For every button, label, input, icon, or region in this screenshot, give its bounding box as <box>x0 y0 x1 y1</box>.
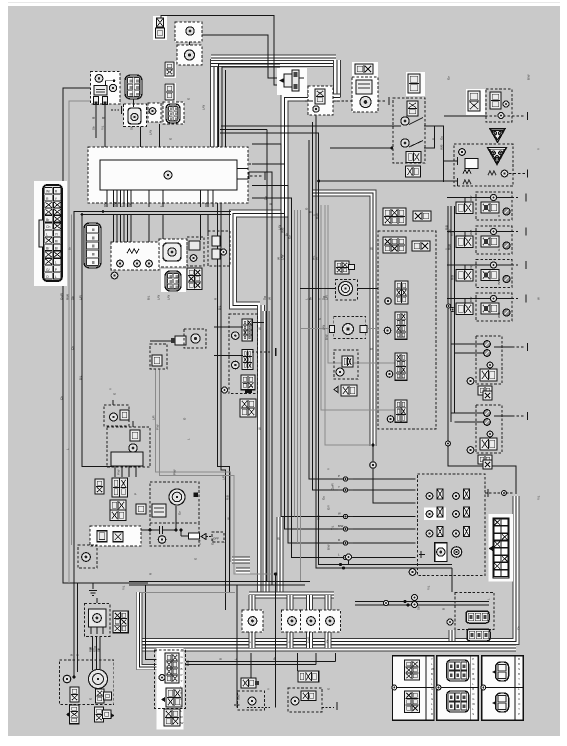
svg-text:W: W <box>258 327 262 330</box>
svg-text:Y/L: Y/L <box>451 231 455 236</box>
svg-text:Ch: Ch <box>71 346 75 350</box>
svg-text:R/W: R/W <box>448 244 452 250</box>
svg-text:L/W: L/W <box>202 105 206 110</box>
svg-text:Y: Y <box>267 688 271 690</box>
svg-text:B: B <box>431 672 433 676</box>
svg-text:R/B: R/B <box>317 515 321 520</box>
svg-text:P: P <box>338 474 340 478</box>
svg-text:G: G <box>431 687 433 691</box>
svg-text:R/B: R/B <box>451 275 455 280</box>
svg-text:B: B <box>181 667 183 671</box>
svg-text:W: W <box>472 702 475 706</box>
svg-text:Y: Y <box>327 468 331 470</box>
svg-text:R: R <box>518 692 520 696</box>
svg-text:B/W: B/W <box>497 279 501 285</box>
svg-text:B: B <box>472 672 474 676</box>
svg-text:W: W <box>537 297 541 300</box>
svg-text:P: P <box>181 673 183 677</box>
svg-text:W: W <box>258 427 262 430</box>
svg-text:Gy: Gy <box>178 511 182 515</box>
svg-text:W/B: W/B <box>440 144 444 150</box>
svg-text:Ch: Ch <box>46 225 50 229</box>
svg-text:Y: Y <box>97 648 101 650</box>
svg-text:W: W <box>338 512 341 516</box>
svg-text:B/L: B/L <box>147 295 151 300</box>
svg-text:R/B: R/B <box>445 225 449 230</box>
svg-text:B: B <box>269 203 273 205</box>
svg-text:Y/L: Y/L <box>122 585 126 590</box>
svg-text:R/B: R/B <box>204 202 208 207</box>
svg-text:Dg: Dg <box>263 296 267 300</box>
svg-text:P/W: P/W <box>117 469 121 475</box>
svg-text:Y: Y <box>518 707 520 711</box>
svg-text:Sb: Sb <box>326 639 330 643</box>
svg-text:B: B <box>442 608 446 610</box>
svg-text:Gy/R: Gy/R <box>307 637 311 643</box>
svg-text:Y: Y <box>537 148 541 150</box>
svg-text:Br: Br <box>309 297 313 300</box>
svg-text:W: W <box>315 257 319 260</box>
svg-text:Y/L: Y/L <box>101 125 105 130</box>
svg-text:L: L <box>46 232 48 236</box>
svg-text:L/W: L/W <box>167 295 171 300</box>
svg-text:R/W: R/W <box>103 201 107 207</box>
svg-text:W: W <box>431 667 434 671</box>
svg-text:W/B: W/B <box>497 312 501 318</box>
svg-text:B/W: B/W <box>338 524 344 528</box>
svg-text:G/: G/ <box>46 268 50 272</box>
svg-text:W: W <box>277 537 281 540</box>
svg-text:W: W <box>268 297 272 300</box>
svg-text:Sb: Sb <box>417 606 421 610</box>
svg-text:R: R <box>338 538 340 542</box>
svg-text:Gy: Gy <box>322 496 326 500</box>
svg-text:Br: Br <box>273 657 277 660</box>
svg-text:L/W: L/W <box>322 325 326 330</box>
svg-text:B: B <box>518 662 520 666</box>
svg-text:W: W <box>227 517 231 520</box>
svg-text:Sb: Sb <box>71 296 75 300</box>
svg-text:R/W: R/W <box>66 294 70 300</box>
svg-text:Gy/R: Gy/R <box>211 538 215 545</box>
svg-text:Y: Y <box>431 657 433 661</box>
svg-text:P: P <box>104 698 108 700</box>
svg-text:W/B: W/B <box>237 694 241 700</box>
svg-text:Sb: Sb <box>92 126 96 130</box>
svg-text:B: B <box>472 687 474 691</box>
svg-text:B/W: B/W <box>325 334 329 340</box>
svg-text:R: R <box>370 348 374 350</box>
svg-text:O: O <box>46 275 49 279</box>
svg-text:R: R <box>214 298 218 300</box>
svg-text:P/W: P/W <box>156 424 160 430</box>
svg-text:C: C <box>518 697 520 701</box>
svg-text:R/W: R/W <box>113 201 117 207</box>
svg-text:W: W <box>181 721 184 725</box>
svg-text:B/R: B/R <box>186 660 190 666</box>
svg-text:R: R <box>149 573 153 575</box>
svg-text:R: R <box>431 712 433 716</box>
svg-text:R/: R/ <box>55 239 58 243</box>
svg-text:B: B <box>219 658 223 660</box>
svg-text:Gy: Gy <box>440 136 444 140</box>
svg-text:L/W: L/W <box>157 295 161 300</box>
svg-text:P: P <box>518 712 520 716</box>
svg-text:G/Y: G/Y <box>327 505 331 510</box>
svg-text:B/: B/ <box>46 247 49 251</box>
svg-text:W/B: W/B <box>469 230 473 235</box>
svg-text:W: W <box>472 677 475 681</box>
svg-text:Y: Y <box>518 677 520 681</box>
svg-text:P: P <box>432 138 436 140</box>
svg-text:B: B <box>518 672 520 676</box>
svg-text:L: L <box>55 275 57 279</box>
svg-text:G: G <box>518 682 520 686</box>
svg-text:P: P <box>248 641 252 643</box>
svg-text:Y/L: Y/L <box>537 495 541 500</box>
svg-text:B/W: B/W <box>327 544 331 550</box>
svg-text:Dg: Dg <box>469 264 473 268</box>
svg-text:L/W: L/W <box>149 130 153 135</box>
svg-text:G: G <box>431 697 433 701</box>
svg-text:W/: W/ <box>46 190 50 194</box>
svg-text:G: G <box>472 662 474 666</box>
svg-text:B/W: B/W <box>527 74 531 80</box>
svg-text:Dg: Dg <box>264 196 268 200</box>
svg-text:S: S <box>518 667 520 671</box>
svg-text:W/B: W/B <box>281 227 285 233</box>
svg-text:Sb: Sb <box>130 126 134 130</box>
svg-text:Y: Y <box>338 485 340 489</box>
svg-text:B: B <box>76 654 80 656</box>
svg-text:Br: Br <box>68 247 72 250</box>
svg-text:Y/: Y/ <box>55 232 58 236</box>
svg-text:Ch: Ch <box>517 626 521 630</box>
svg-text:P/W: P/W <box>173 469 177 475</box>
svg-text:Gy/R: Gy/R <box>60 292 64 300</box>
svg-text:L/W: L/W <box>198 540 202 545</box>
svg-text:L: L <box>55 261 57 265</box>
svg-text:Y: Y <box>109 388 113 390</box>
svg-text:R/W: R/W <box>469 195 473 201</box>
svg-text:R/B: R/B <box>307 695 311 700</box>
svg-text:Gy/R: Gy/R <box>331 483 335 490</box>
svg-text:Y/L: Y/L <box>331 525 335 530</box>
svg-text:L/R: L/R <box>222 476 226 481</box>
svg-text:Gy: Gy <box>447 76 451 80</box>
svg-text:Y: Y <box>181 679 183 683</box>
svg-text:B: B <box>70 654 74 656</box>
svg-text:R/B: R/B <box>226 495 230 500</box>
svg-text:B/: B/ <box>55 247 58 251</box>
svg-text:Dg: Dg <box>127 203 131 207</box>
svg-text:B/W: B/W <box>469 296 473 302</box>
svg-text:P: P <box>288 641 292 643</box>
svg-text:B: B <box>309 211 313 213</box>
svg-text:B/L: B/L <box>79 375 83 380</box>
svg-text:Ch: Ch <box>60 396 64 400</box>
svg-text:S: S <box>472 712 474 716</box>
svg-text:Y/L: Y/L <box>427 585 431 590</box>
svg-text:Gy: Gy <box>288 235 292 239</box>
svg-text:L/R: L/R <box>152 416 156 421</box>
svg-text:G: G <box>472 697 474 701</box>
svg-text:B: B <box>518 657 520 661</box>
svg-text:P: P <box>472 657 474 661</box>
svg-text:R/W: R/W <box>316 213 320 219</box>
svg-text:B/L: B/L <box>218 305 222 310</box>
svg-text:W: W <box>370 247 374 250</box>
svg-text:P: P <box>134 493 138 495</box>
svg-text:L/W: L/W <box>281 254 285 260</box>
